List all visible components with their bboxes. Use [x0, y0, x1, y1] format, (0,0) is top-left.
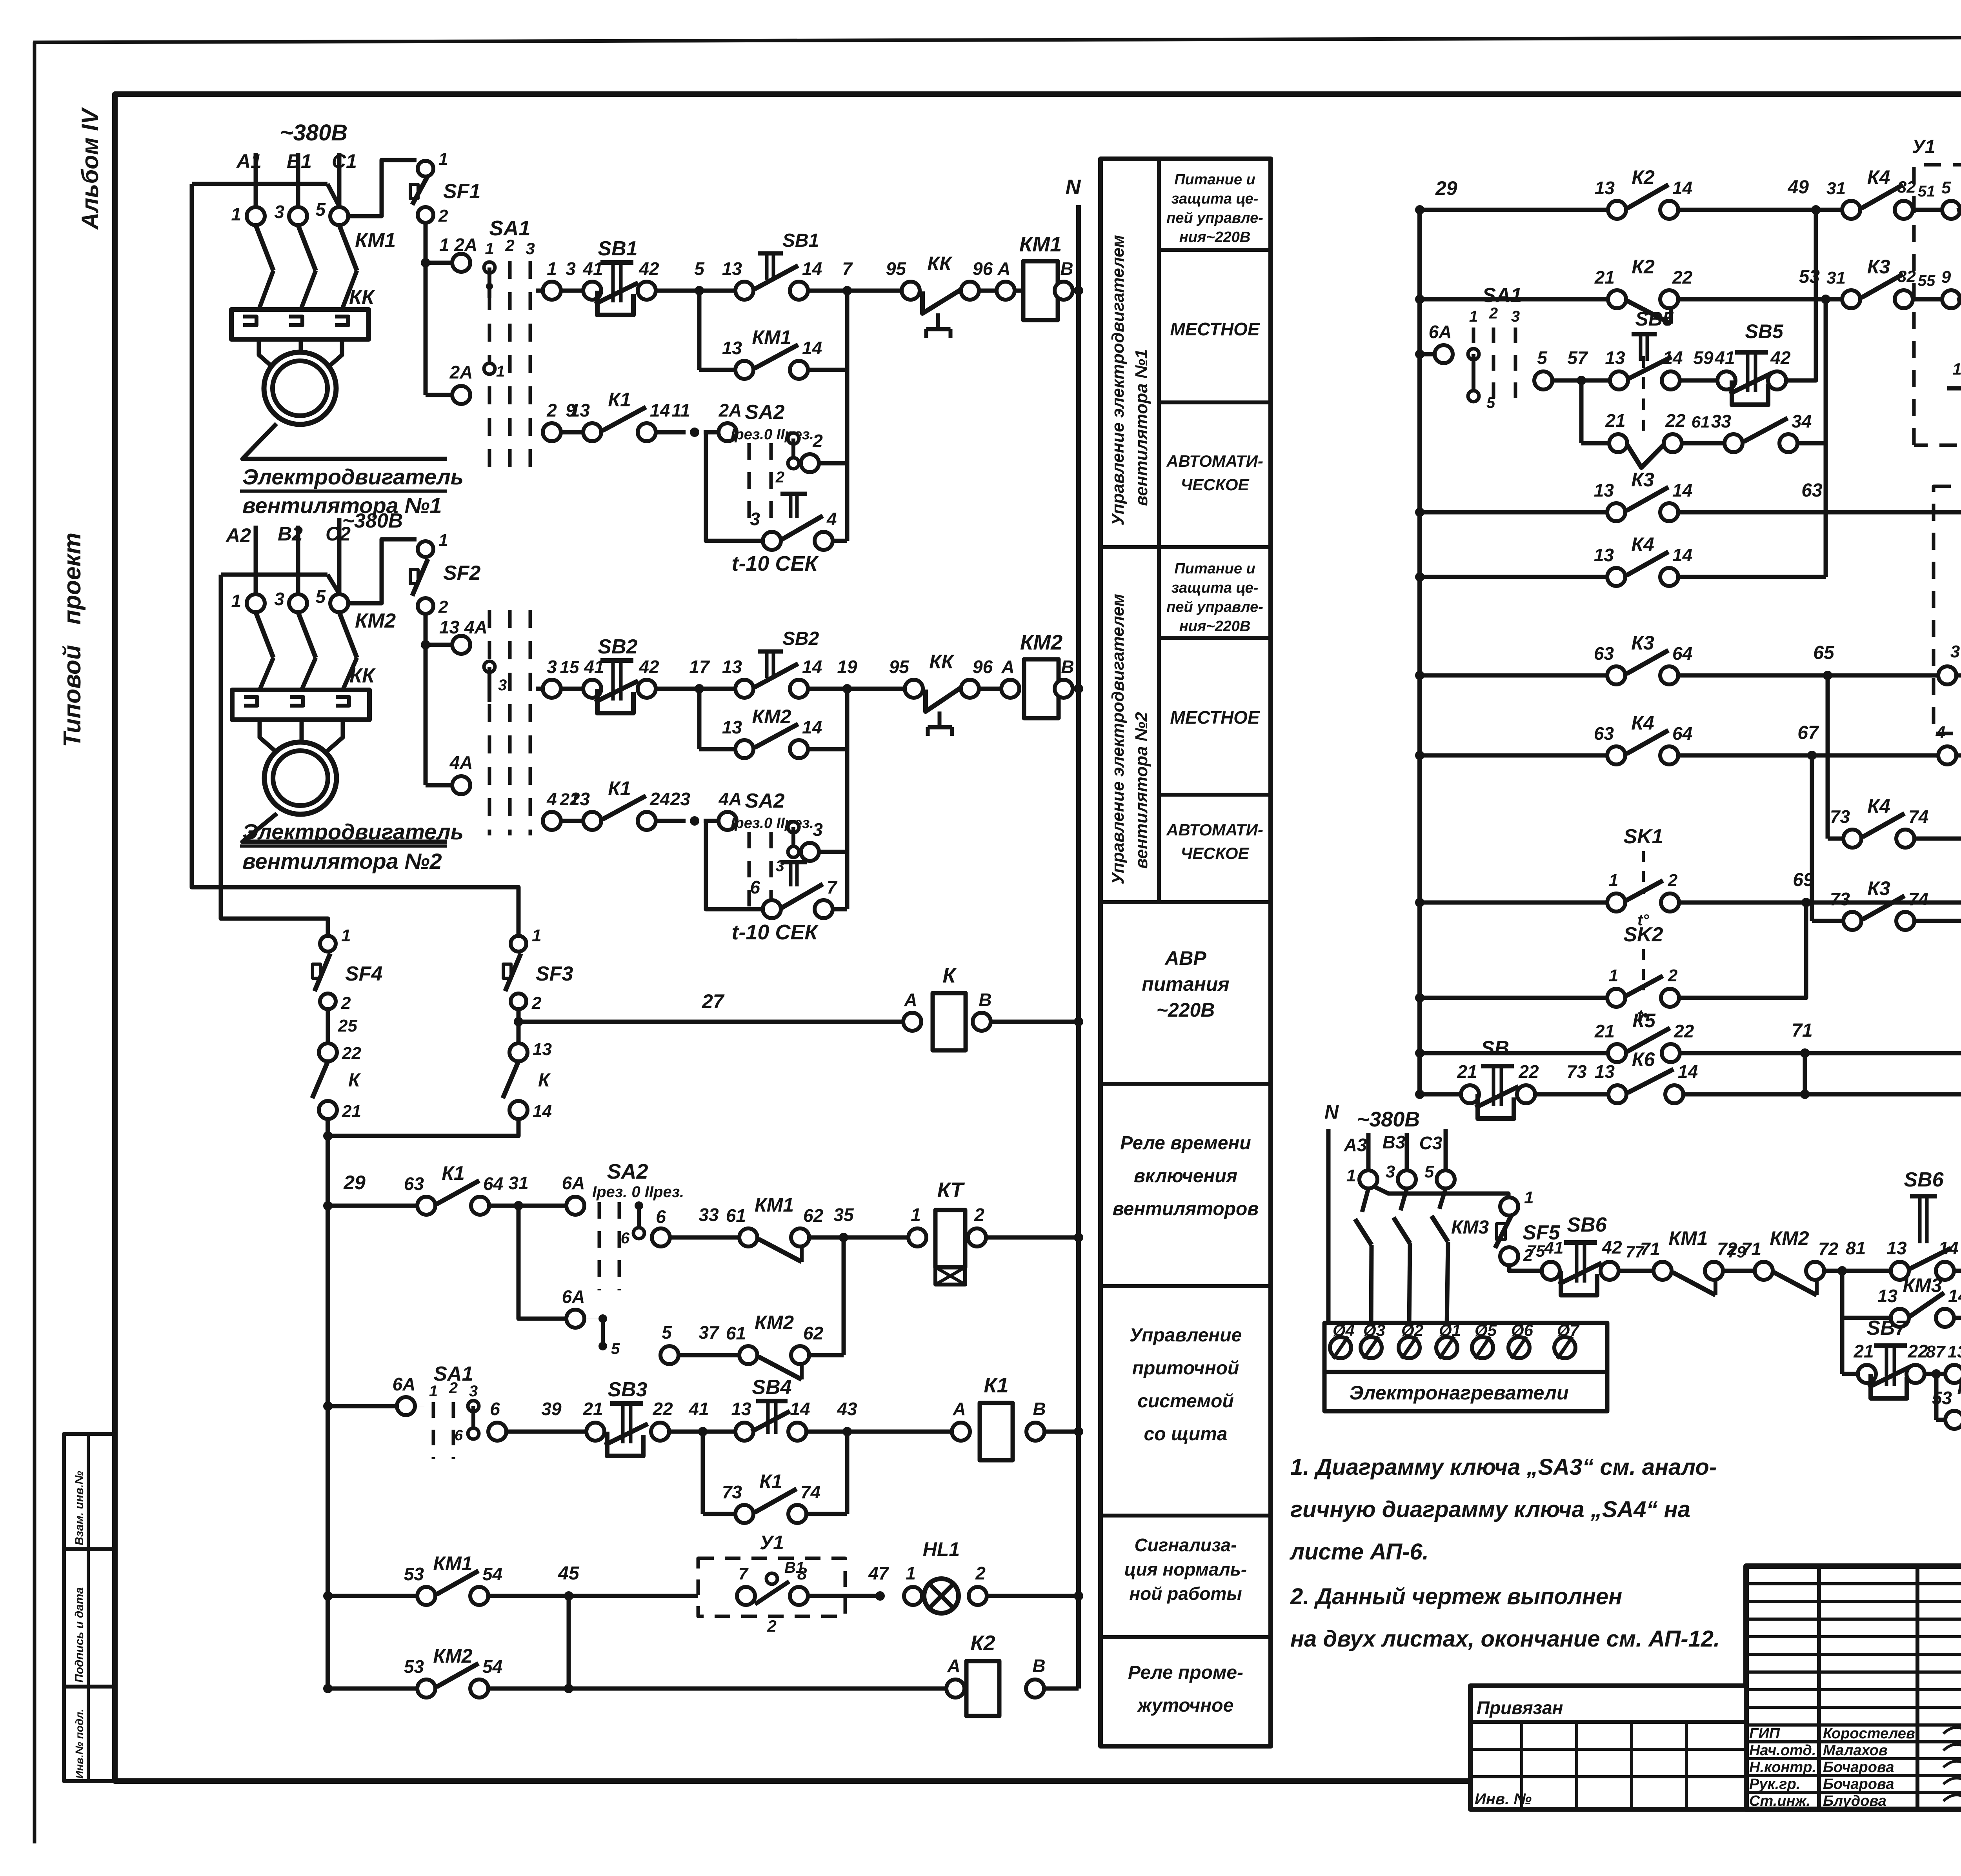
svg-text:Ст.инж.: Ст.инж. [1749, 1793, 1810, 1809]
time contact KT1 [763, 532, 781, 550]
svg-text:SA2: SA2 [745, 790, 784, 812]
wire em a [1956, 673, 1961, 678]
svg-text:3: 3 [274, 202, 284, 222]
terminal 21 sb7 [1858, 1365, 1876, 1383]
svg-text:95: 95 [886, 258, 907, 279]
svg-text:К3: К3 [1631, 632, 1654, 654]
svg-text:К2: К2 [1632, 256, 1655, 278]
wire SA1 to rung2 [536, 687, 543, 691]
svg-text:6: 6 [490, 1399, 500, 1419]
contact KM3 aux 53-54 [1945, 1411, 1961, 1429]
svg-text:33: 33 [699, 1205, 719, 1225]
wire sbr a [1420, 1092, 1461, 1097]
wire r63k3 a [1420, 673, 1607, 678]
wire sbr b [1535, 1092, 1608, 1097]
svg-text:вентилятора №1: вентилятора №1 [1132, 349, 1151, 506]
svg-text:КМ3: КМ3 [1903, 1274, 1942, 1296]
branch 45 down [567, 1596, 571, 1689]
svg-text:3: 3 [274, 589, 284, 609]
svg-text:95: 95 [889, 657, 910, 677]
wire rk4 a [1420, 297, 1608, 302]
node 35 [839, 1233, 848, 1242]
node sf3 [514, 1017, 523, 1026]
svg-text:13: 13 [1594, 480, 1614, 500]
svg-text:1: 1 [429, 1383, 438, 1400]
SA1 dashed column 1 lower [488, 610, 491, 835]
svg-text:Подпись и дата: Подпись и дата [73, 1587, 86, 1683]
node 31 [514, 1201, 523, 1210]
svg-text:SA2: SA2 [745, 401, 784, 424]
terminal B r2 [1055, 680, 1073, 698]
svg-text:6А: 6А [393, 1374, 416, 1394]
svg-text:42: 42 [1601, 1237, 1622, 1257]
svg-text:14: 14 [802, 717, 822, 737]
svg-text:1: 1 [231, 204, 241, 224]
svg-text:21: 21 [560, 790, 579, 809]
svg-text:SB5: SB5 [1635, 308, 1674, 330]
contact K3 no rk4 [1842, 290, 1860, 308]
svg-text:ной работы: ной работы [1129, 1583, 1242, 1604]
svg-text:2: 2 [1668, 966, 1678, 985]
svg-text:5: 5 [611, 1340, 620, 1357]
node 7 r1 [842, 286, 852, 295]
breaker SF5 blade [1495, 1215, 1512, 1248]
stamp box inv podl [64, 1687, 115, 1781]
svg-text:74: 74 [800, 1482, 820, 1502]
svg-text:КМ2: КМ2 [1020, 631, 1062, 654]
branch 65 down [1826, 675, 1830, 839]
svg-text:43: 43 [837, 1399, 857, 1419]
svg-text:Бочарова: Бочарова [1823, 1759, 1894, 1776]
svg-text:А2: А2 [225, 524, 251, 546]
svg-text:Iрез.0 IIрез.: Iрез.0 IIрез. [731, 426, 814, 443]
svg-text:57: 57 [1567, 348, 1588, 368]
terminal 6 r29b [652, 1228, 670, 1246]
terminal 2 kt coil [968, 1228, 986, 1246]
wire r29 b [489, 1204, 566, 1208]
callout line motor1 [242, 424, 447, 459]
phase wire A3 [1366, 1133, 1371, 1170]
node sk1 [1415, 898, 1424, 907]
svg-text:5: 5 [1486, 394, 1495, 411]
wire r1 d [808, 289, 847, 293]
svg-text:1. Диаграмму ключа „SA3“ см. а: 1. Диаграмму ключа „SA3“ см. анало- [1290, 1454, 1717, 1480]
svg-text:Электродвигатель: Электродвигатель [242, 464, 464, 489]
svg-text:2: 2 [341, 993, 351, 1013]
svg-text:7: 7 [739, 1564, 749, 1583]
tb thin row 7 [1746, 1706, 1961, 1709]
svg-text:69: 69 [1793, 870, 1814, 890]
svg-text:7: 7 [827, 877, 838, 897]
wire sk2 b [1679, 903, 1806, 998]
wire r1 f [979, 289, 997, 293]
contact K1 r1c [583, 423, 601, 441]
svg-text:жуточное: жуточное [1137, 1695, 1234, 1716]
svg-text:В: В [1061, 657, 1074, 677]
wire r2 b [656, 687, 699, 691]
svg-text:С3: С3 [1419, 1133, 1443, 1153]
node r2 N [1074, 684, 1083, 693]
terminal 1 sf5 [1500, 1197, 1518, 1215]
svg-text:КК: КК [929, 651, 955, 673]
lamp HL1 [924, 1579, 959, 1613]
breaker SF4 [320, 936, 336, 952]
terminal 1 h [1359, 1170, 1377, 1188]
tb thin row 4 [1746, 1653, 1961, 1656]
terminal 2 sa2 [801, 454, 819, 472]
contactor KM1 main blades [256, 225, 273, 271]
svg-text:В: В [1060, 258, 1073, 279]
SA1 right col3 [1514, 328, 1517, 410]
svg-text:39: 39 [541, 1399, 562, 1419]
contact K nc sf4 [312, 1061, 328, 1098]
terminal A k2 [946, 1679, 964, 1698]
svg-text:ЧЕСКОЕ: ЧЕСКОЕ [1181, 844, 1250, 862]
svg-text:2: 2 [812, 431, 823, 451]
svg-text:Типовой проект: Типовой проект [59, 533, 86, 747]
svg-text:54: 54 [482, 1564, 502, 1584]
svg-text:МЕСТНОЕ: МЕСТНОЕ [1170, 707, 1260, 728]
U1 dashed box [698, 1558, 845, 1616]
terminal 14 sb5 [1662, 371, 1680, 389]
svg-text:Сигнализа-: Сигнализа- [1135, 1535, 1237, 1555]
svg-text:SB3: SB3 [608, 1378, 647, 1401]
wire sa2b to v [819, 850, 847, 854]
svg-text:1: 1 [496, 363, 505, 380]
SA2 avr contact2 [598, 1314, 607, 1323]
svg-text:КМ2: КМ2 [433, 1645, 472, 1667]
SA1 dashed column 3 [529, 261, 532, 475]
middle table row f [1101, 1284, 1271, 1288]
wire r73k3 b [1914, 919, 1961, 923]
wire sf3 a [517, 1009, 521, 1043]
svg-text:защита це-: защита це- [1172, 580, 1259, 596]
SK1 dashed stem [1642, 851, 1645, 894]
svg-text:N: N [1066, 175, 1081, 199]
wire r2 f [979, 687, 1001, 691]
contact KM1 self-hold upper [735, 282, 753, 300]
svg-text:22: 22 [1674, 1021, 1694, 1041]
svg-text:61: 61 [726, 1205, 746, 1226]
heater supply link [1374, 1186, 1508, 1197]
svg-text:13: 13 [722, 717, 742, 737]
svg-text:14: 14 [1938, 1238, 1958, 1258]
svg-text:пей управле-: пей управле- [1166, 599, 1263, 615]
svg-text:Управление электродвигателем: Управление электродвигателем [1108, 594, 1128, 884]
svg-text:А: А [904, 990, 917, 1010]
svg-text:КМ1: КМ1 [755, 1194, 794, 1216]
terminal 21 sb [1461, 1085, 1479, 1103]
supply link wire motor1 [192, 182, 327, 186]
svg-text:SB1: SB1 [598, 237, 637, 260]
wire r2 g [1073, 687, 1079, 691]
svg-text:13: 13 [1605, 348, 1625, 368]
wire sb3 b [669, 1430, 703, 1434]
svg-text:КМ3: КМ3 [1957, 1376, 1961, 1398]
wire k5x a [1420, 1051, 1608, 1055]
wire r29b b [809, 1236, 908, 1240]
wire r63k3 b [1678, 673, 1938, 678]
node 45 [564, 1591, 573, 1601]
svg-text:SB6: SB6 [1567, 1214, 1607, 1236]
terminal 21 sb3 [586, 1423, 604, 1441]
motor M1 [264, 352, 336, 424]
svg-text:С1: С1 [332, 150, 357, 172]
phase wire B2 [296, 526, 300, 603]
svg-text:3: 3 [526, 239, 535, 258]
svg-text:SK2: SK2 [1623, 923, 1663, 946]
svg-text:5: 5 [315, 199, 326, 220]
svg-text:42: 42 [1770, 348, 1791, 368]
branch 67 down [1810, 755, 1814, 921]
contact KM1 hl1 [417, 1587, 435, 1605]
node r29r bus [1415, 205, 1424, 215]
wire kt2 right [833, 907, 847, 912]
wire km2 aux a [699, 747, 735, 751]
svg-text:вентилятора №2: вентилятора №2 [242, 849, 442, 873]
svg-text:37: 37 [699, 1322, 720, 1343]
contact K3 no r5 [1607, 503, 1625, 521]
svg-text:Н.контр.: Н.контр. [1749, 1759, 1816, 1776]
svg-text:У1: У1 [760, 1532, 784, 1554]
svg-text:К3: К3 [1867, 877, 1890, 899]
wire km1 aux a [699, 368, 735, 372]
svg-text:15: 15 [560, 658, 579, 677]
svg-text:SF4: SF4 [345, 963, 382, 985]
wire 6a right [1420, 352, 1435, 357]
svg-text:1: 1 [438, 531, 448, 550]
contact B1 u1 [766, 1573, 777, 1584]
svg-text:3: 3 [498, 677, 507, 694]
svg-text:SB: SB [1481, 1037, 1509, 1060]
thermal contact KK r1 [902, 282, 920, 300]
node r1 N [1074, 286, 1083, 295]
wire sub b [1682, 441, 1725, 446]
SA1 contact mark 1 [484, 262, 495, 273]
wire r73k4 b [1914, 837, 1961, 841]
svg-text:42: 42 [639, 657, 659, 677]
heater box [1324, 1323, 1607, 1372]
svg-text:14: 14 [1672, 545, 1692, 565]
tb thin row 6 [1746, 1688, 1961, 1691]
tb thin row 0 [1746, 1582, 1961, 1585]
wire kt left [706, 432, 763, 541]
branch wire km1 aux left [697, 291, 702, 370]
svg-text:72: 72 [1818, 1239, 1839, 1259]
svg-text:13: 13 [1948, 1342, 1961, 1361]
svg-text:К1: К1 [608, 777, 631, 799]
svg-text:71: 71 [1792, 1020, 1812, 1041]
terminal 4A lower [452, 776, 470, 794]
svg-text:Привязан: Привязан [1477, 1698, 1563, 1718]
wire r29 a [328, 1204, 417, 1208]
svg-text:22: 22 [1907, 1341, 1928, 1361]
branch 71 down [1803, 1053, 1807, 1094]
svg-text:14: 14 [802, 657, 822, 677]
svg-text:22: 22 [342, 1044, 361, 1063]
svg-text:5: 5 [1537, 348, 1548, 368]
svg-text:2: 2 [438, 597, 448, 617]
svg-text:8: 8 [797, 1564, 807, 1583]
svg-text:SB1: SB1 [782, 230, 819, 251]
wire r1 a [561, 289, 583, 293]
phase wire B3 [1405, 1133, 1409, 1170]
tb signature squiggles [1943, 1726, 1961, 1734]
SA1 dashed column 2 [508, 261, 512, 475]
wire r1 g [1015, 289, 1023, 293]
wire 6a to sb3 [415, 1406, 424, 1407]
svg-text:74: 74 [1908, 806, 1928, 827]
svg-text:КМ3: КМ3 [1451, 1217, 1489, 1238]
svg-text:Ø4: Ø4 [1333, 1321, 1355, 1339]
svg-text:41: 41 [582, 258, 603, 279]
wire r13k3 b [1678, 510, 1961, 515]
node 67 [1807, 751, 1817, 760]
terminal B k1 [1026, 1423, 1044, 1441]
svg-text:13: 13 [1595, 1061, 1615, 1082]
thermo contact SK1 [1607, 893, 1625, 912]
svg-text:49: 49 [1788, 177, 1809, 198]
terminal B r1 [1055, 282, 1073, 300]
svg-text:1: 1 [1346, 1166, 1356, 1185]
wires KK to motor1 [259, 339, 275, 369]
svg-text:Коростелев: Коростелев [1823, 1725, 1915, 1742]
stamp box vzam inv [64, 1434, 115, 1549]
node 69 [1801, 898, 1811, 907]
svg-text:КМ1: КМ1 [1019, 233, 1062, 256]
svg-text:6А: 6А [1429, 322, 1452, 342]
wire KM1 to KK B [301, 271, 316, 309]
wire r73k3 a [1812, 919, 1843, 923]
wire r6a [328, 1404, 397, 1408]
wire r2 d [808, 687, 847, 691]
svg-text:96: 96 [973, 258, 993, 279]
wire r2c a [561, 819, 583, 823]
wire r2c c [704, 819, 719, 823]
tb thin row 2 [1746, 1618, 1961, 1621]
node 19 r2 [842, 684, 852, 693]
svg-text:SB5: SB5 [1745, 320, 1783, 342]
svg-text:21: 21 [1457, 1061, 1477, 1082]
contact K4 no r6 [1607, 568, 1625, 586]
svg-text:А: А [1001, 657, 1014, 677]
svg-text:14: 14 [790, 1399, 810, 1419]
svg-text:Ø2: Ø2 [1401, 1321, 1423, 1339]
svg-text:КК: КК [927, 253, 953, 275]
terminal 13 sb8 [1945, 1365, 1961, 1383]
node 6a bus [323, 1401, 333, 1411]
svg-text:Альбом IV: Альбом IV [77, 107, 103, 230]
svg-text:17: 17 [689, 657, 710, 677]
SA1 dashed column 2 lower [508, 610, 512, 835]
svg-text:1: 1 [1524, 1188, 1534, 1207]
svg-text:К4: К4 [1631, 712, 1654, 734]
callout line motor2 [242, 813, 447, 842]
wire sf4 a [326, 1009, 330, 1043]
terminal 3 sa2b [801, 843, 819, 861]
svg-text:Ø5: Ø5 [1475, 1321, 1497, 1339]
svg-text:53: 53 [404, 1564, 424, 1584]
wire hl1 e [987, 1594, 1079, 1598]
terminal 5 KM1 [330, 207, 348, 225]
svg-text:3: 3 [1950, 642, 1960, 661]
node 43 [842, 1427, 852, 1436]
pushbutton SB2 [597, 689, 633, 713]
terminal 3 r2 [543, 680, 561, 698]
wire r29b c [986, 1236, 1079, 1240]
terminal 3 KM2 [289, 594, 307, 612]
underline1 [240, 489, 447, 493]
wire sk1 a [1420, 901, 1607, 905]
contact KM2 nc r37 [739, 1346, 757, 1364]
svg-text:N: N [1324, 1101, 1339, 1123]
svg-text:71: 71 [1640, 1239, 1660, 1259]
terminal 8 u1 [790, 1587, 808, 1605]
contact KM1 nc km3 [1654, 1262, 1672, 1280]
terminal 42 km3 [1601, 1262, 1619, 1280]
svg-text:54: 54 [482, 1656, 502, 1677]
SA1 right col2 [1492, 328, 1495, 410]
right left bus [1417, 210, 1422, 1094]
svg-text:SK1: SK1 [1623, 825, 1663, 848]
svg-text:Ø1: Ø1 [1439, 1321, 1461, 1339]
wire SA1 to rung1 [536, 289, 543, 293]
node r13k4 [1415, 572, 1424, 582]
svg-text:5: 5 [1941, 178, 1951, 197]
wire 6a sub [584, 1318, 603, 1319]
thermal relay KK box motor1 [231, 309, 369, 339]
branch 43 down [845, 1432, 850, 1514]
svg-text:2: 2 [438, 206, 448, 226]
terminal 6A r6a [397, 1397, 415, 1415]
svg-text:2: 2 [775, 469, 784, 486]
svg-text:14: 14 [802, 338, 822, 358]
wire k1sh a [703, 1512, 735, 1516]
svg-text:62: 62 [803, 1323, 824, 1343]
wire rk4 b [1678, 297, 1842, 302]
pushbutton SB7 [1871, 1374, 1907, 1398]
branch 35 down [842, 1237, 846, 1355]
heater N wire [1326, 1129, 1331, 1323]
middle table cell row c [1159, 636, 1271, 640]
svg-text:25: 25 [338, 1016, 357, 1035]
svg-text:13: 13 [1877, 1286, 1898, 1306]
branch wire km1 aux right [845, 291, 850, 541]
svg-text:64: 64 [1672, 643, 1692, 664]
node rk4 bus [1415, 295, 1424, 304]
svg-text:21: 21 [1594, 267, 1615, 287]
svg-text:14: 14 [1663, 348, 1683, 368]
svg-text:К: К [538, 1070, 551, 1091]
branch 81 down2 [1840, 1318, 1845, 1374]
privyazan header row [1470, 1720, 1746, 1724]
contact K no sf3 [503, 1061, 518, 1098]
wire km3 e [1954, 1269, 1961, 1273]
middle table row e [1101, 1082, 1271, 1086]
wire km3sh a [1842, 1316, 1891, 1320]
svg-text:SF1: SF1 [443, 180, 480, 203]
tb thin row 1 [1746, 1600, 1961, 1603]
svg-text:АВТОМАТИ-: АВТОМАТИ- [1166, 821, 1263, 839]
branch wire km2 aux right [845, 689, 850, 909]
svg-text:В: В [1032, 1656, 1045, 1676]
wire r2c b [656, 819, 686, 823]
svg-text:SF3: SF3 [536, 963, 573, 985]
svg-text:АВР: АВР [1164, 947, 1206, 969]
svg-text:К1: К1 [984, 1374, 1008, 1397]
svg-text:КТ: КТ [937, 1178, 965, 1202]
node sk2 [1415, 993, 1424, 1003]
